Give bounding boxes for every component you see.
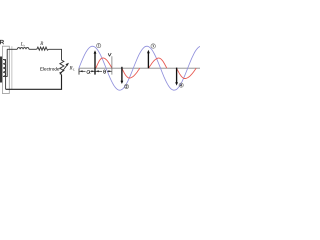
svg-text:L: L	[72, 67, 75, 71]
svg-text:Electrode: Electrode	[40, 66, 60, 71]
svg-text:R: R	[69, 66, 73, 71]
svg-text:R: R	[39, 42, 43, 47]
